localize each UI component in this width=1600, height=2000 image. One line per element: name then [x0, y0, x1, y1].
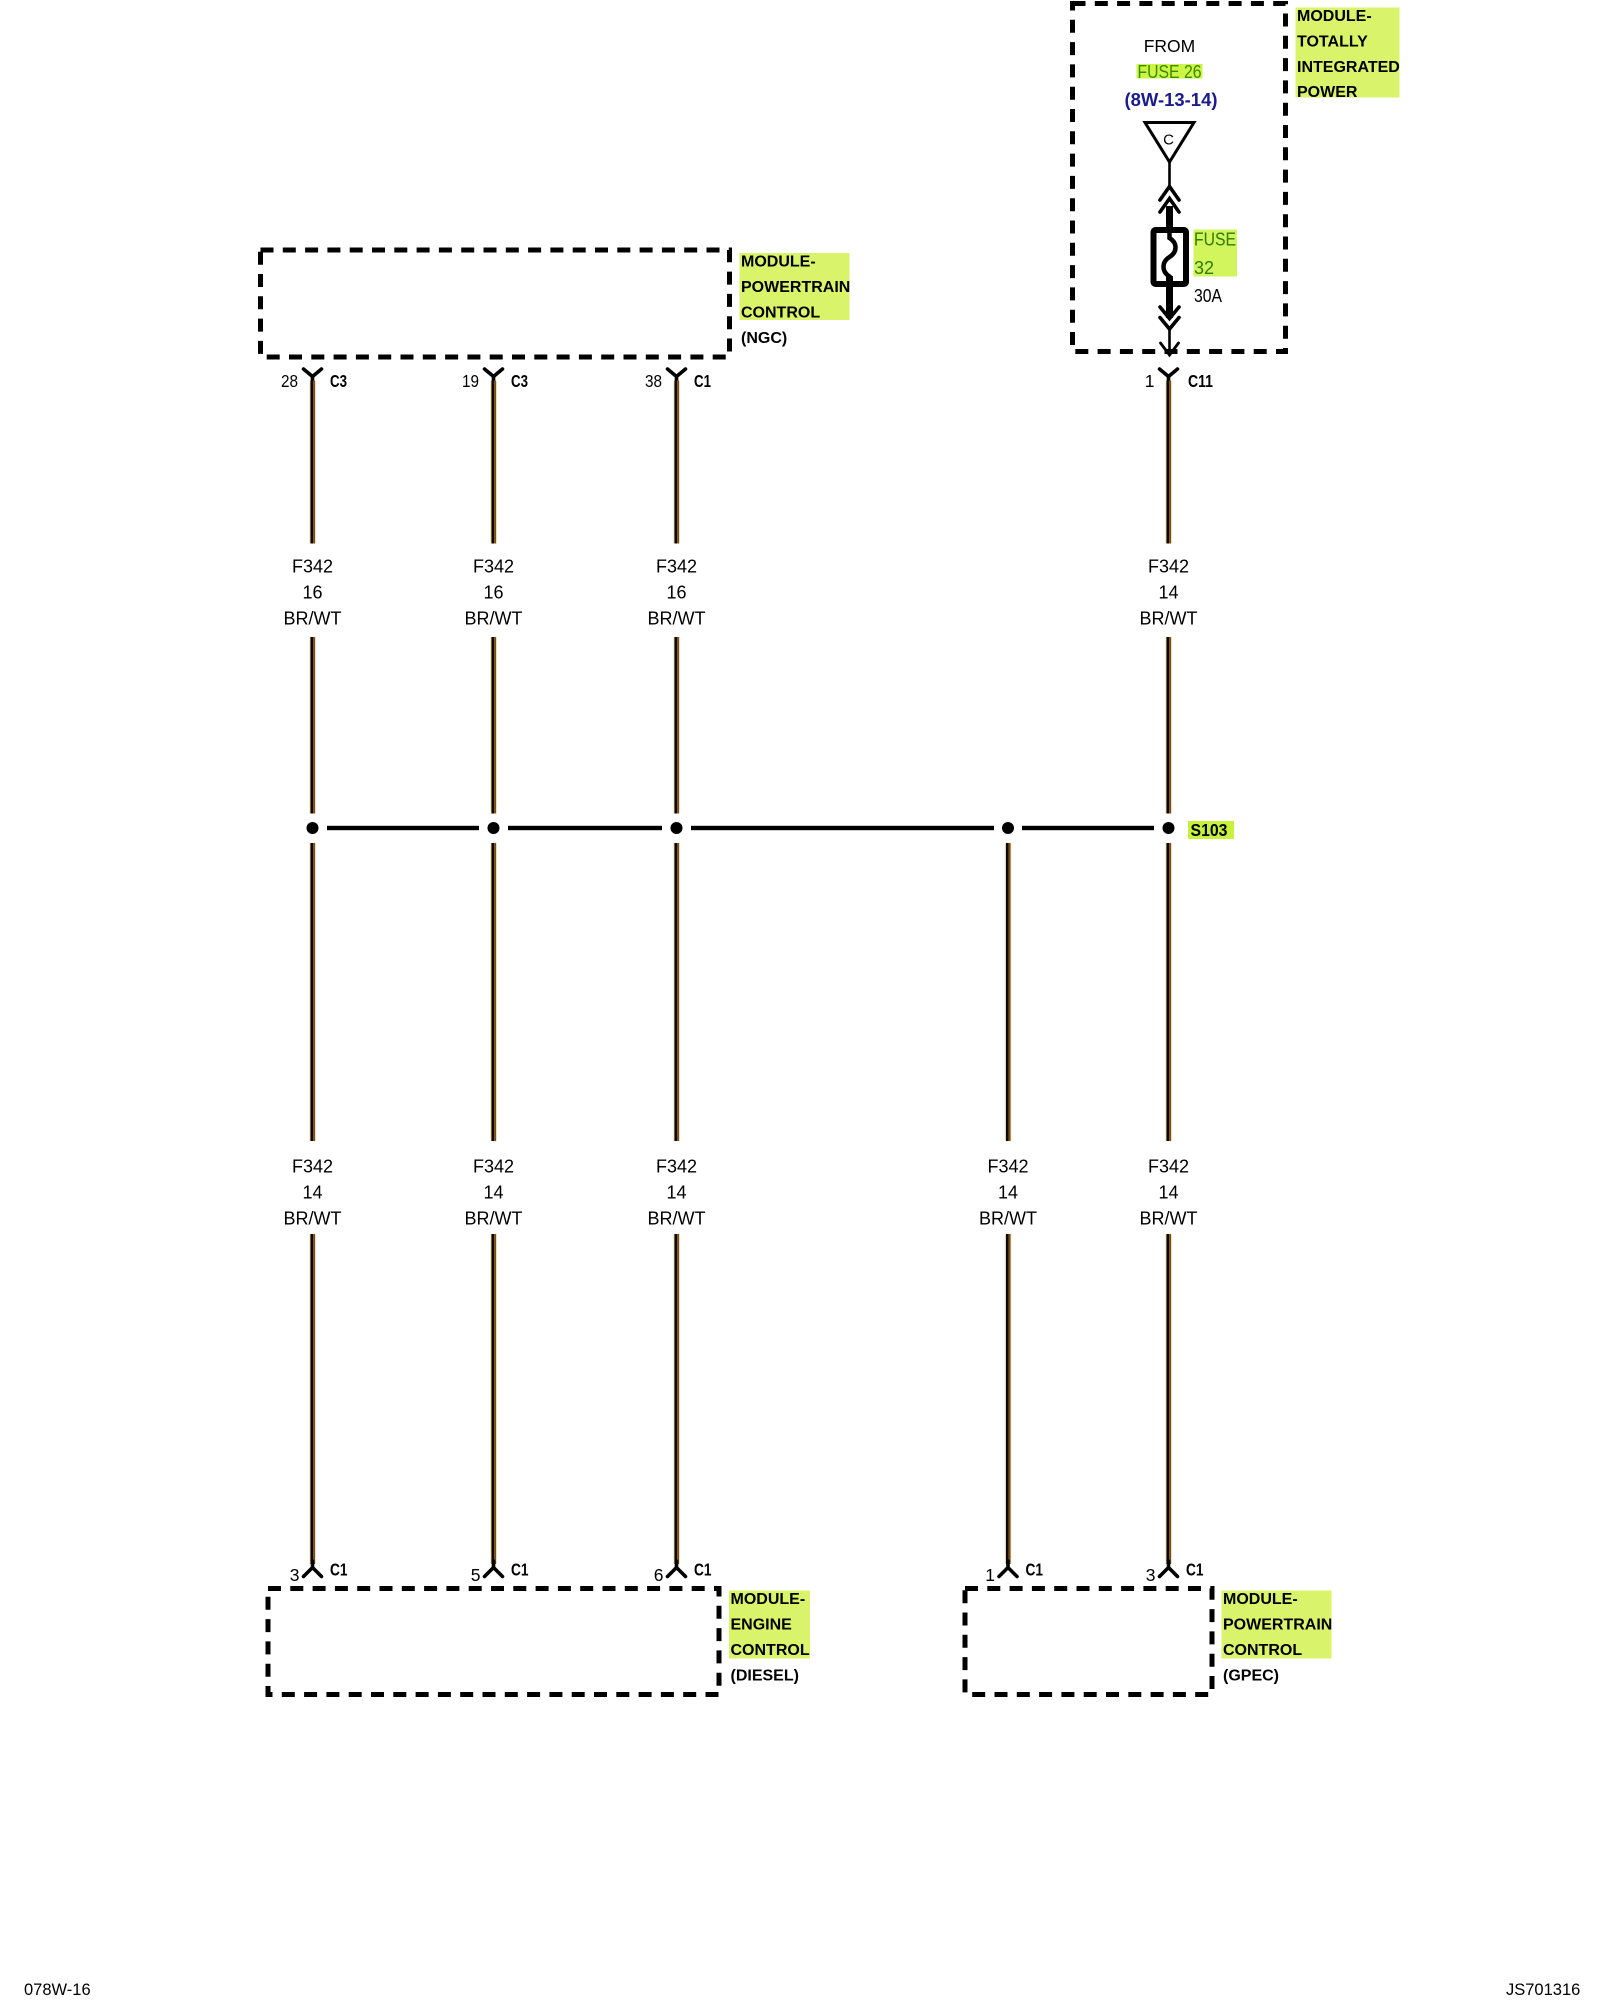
svg-text:C3: C3: [511, 371, 528, 391]
svg-text:5: 5: [471, 1565, 481, 1585]
wire col3 upper-b: [673, 637, 680, 814]
svg-text:19: 19: [462, 371, 479, 391]
svg-text:C1: C1: [694, 371, 711, 391]
svg-text:CONTROL: CONTROL: [731, 1642, 810, 1659]
wire label col1 lower: F342 14 BR/WT: [284, 1157, 342, 1229]
junction dot splice S103 col4: [1002, 822, 1014, 834]
wire col2 upper-a: [490, 381, 497, 544]
wire col3 upper-a: [673, 381, 680, 544]
svg-text:14: 14: [1158, 1183, 1178, 1203]
svg-text:(DIESEL): (DIESEL): [731, 1668, 799, 1685]
svg-text:30A: 30A: [1194, 286, 1222, 306]
wire col3 lower-b: [673, 1234, 680, 1564]
junction dot splice S103 col3: [671, 822, 683, 834]
wire label col3 upper: F342 16 BR/WT: [648, 557, 706, 629]
module: ENGINE CONTROL MODULE (DIESEL) dashed box: [268, 1589, 719, 1695]
svg-text:C11: C11: [1188, 371, 1213, 391]
svg-text:F342: F342: [473, 1157, 514, 1177]
wire label col3 lower: F342 14 BR/WT: [648, 1157, 706, 1229]
svg-text:F342: F342: [292, 1157, 333, 1177]
svg-text:F342: F342: [987, 1157, 1028, 1177]
svg-text:C1: C1: [1186, 1560, 1204, 1580]
wire col2 lower-b: [490, 1234, 497, 1564]
wire col2 upper-b: [490, 637, 497, 814]
svg-text:JS701316: JS701316: [1506, 1981, 1580, 1999]
label MODULE-TOTALLY INTEGRATED POWER: [1296, 8, 1400, 102]
svg-text:14: 14: [998, 1183, 1018, 1203]
thick feed wire into fuse 32: [1166, 206, 1173, 240]
junction dot splice S103 col1: [307, 822, 319, 834]
svg-text:F342: F342: [292, 557, 333, 577]
wire col4 lower-a: [1005, 843, 1012, 1141]
svg-text:C: C: [1163, 132, 1174, 149]
svg-text:14: 14: [302, 1183, 322, 1203]
wire col2 lower-a: [490, 843, 497, 1141]
label MODULE-ENGINE CONTROL (DIESEL): [729, 1591, 810, 1659]
svg-text:(NGC): (NGC): [741, 330, 787, 347]
wire col4 lower-b: [1005, 1234, 1012, 1564]
svg-text:FUSE: FUSE: [1194, 230, 1236, 250]
wire col5 lower-a: [1165, 843, 1172, 1141]
svg-text:S103: S103: [1191, 820, 1228, 840]
wire col1 upper-a: [309, 381, 316, 544]
svg-text:BR/WT: BR/WT: [648, 609, 706, 629]
svg-text:BR/WT: BR/WT: [465, 1209, 523, 1229]
pin 3 of connector C1 (ECM diesel): [290, 1560, 348, 1586]
svg-text:POWERTRAIN: POWERTRAIN: [741, 279, 850, 296]
splice S103 horizontal bus: [327, 826, 1154, 830]
wire label col1 upper: F342 16 BR/WT: [284, 557, 342, 629]
svg-text:14: 14: [1158, 583, 1178, 603]
svg-text:C1: C1: [330, 1560, 348, 1580]
svg-text:3: 3: [1146, 1565, 1156, 1585]
module: TOTALLY INTEGRATED POWER MODULE dashed box: [1073, 4, 1286, 352]
svg-text:F342: F342: [656, 1157, 697, 1177]
label MODULE-POWERTRAIN CONTROL (GPEC): [1222, 1591, 1333, 1659]
svg-text:TOTALLY: TOTALLY: [1297, 33, 1368, 50]
svg-text:CONTROL: CONTROL: [741, 304, 820, 321]
net label S103: [1188, 820, 1234, 840]
wire col1 upper-b: [309, 637, 316, 814]
double chevron (wire continuation, up): [1160, 187, 1179, 213]
wire col5 lower-b: [1165, 1234, 1172, 1564]
svg-text:C3: C3: [330, 371, 347, 391]
wire label col5 upper: F342 14 BR/WT: [1140, 557, 1198, 629]
svg-text:078W-16: 078W-16: [24, 1981, 91, 1999]
svg-text:ENGINE: ENGINE: [731, 1616, 793, 1633]
svg-text:14: 14: [483, 1183, 503, 1203]
svg-text:POWER: POWER: [1297, 84, 1358, 101]
svg-text:F342: F342: [656, 557, 697, 577]
svg-text:F342: F342: [1148, 557, 1189, 577]
wire label col4 lower: F342 14 BR/WT: [979, 1157, 1037, 1229]
label: FUSE 32: [1194, 230, 1238, 279]
sheet number 078W-16: [24, 1981, 91, 1999]
svg-text:16: 16: [666, 583, 686, 603]
wire label col5 lower: F342 14 BR/WT: [1140, 1157, 1198, 1229]
label: 30A rating: [1194, 286, 1222, 306]
net label: FROM FUSE 26 (8W-13-14): [1125, 36, 1218, 110]
svg-text:MODULE-: MODULE-: [1297, 8, 1372, 25]
wire col1 lower-b: [309, 1234, 316, 1564]
wire col5 upper-a: [1165, 381, 1172, 544]
label: (GPEC): [1223, 1668, 1279, 1685]
off-page connector C (triangle): [1145, 123, 1194, 163]
svg-text:C1: C1: [1026, 1560, 1044, 1580]
module: POWERTRAIN CONTROL MODULE (GPEC) dashed box: [965, 1589, 1212, 1695]
svg-text:(GPEC): (GPEC): [1223, 1668, 1279, 1685]
svg-text:F342: F342: [1148, 1157, 1189, 1177]
svg-text:1: 1: [985, 1565, 995, 1585]
svg-text:38: 38: [645, 371, 662, 391]
svg-text:CONTROL: CONTROL: [1223, 1642, 1302, 1659]
wire label col2 lower: F342 14 BR/WT: [465, 1157, 523, 1229]
label: (NGC): [741, 330, 787, 347]
pin 5 of connector C1 (ECM diesel): [471, 1560, 529, 1586]
svg-text:FROM: FROM: [1144, 36, 1196, 56]
svg-text:F342: F342: [473, 557, 514, 577]
svg-text:POWERTRAIN: POWERTRAIN: [1223, 1616, 1332, 1633]
svg-text:BR/WT: BR/WT: [648, 1209, 706, 1229]
drawing id JS701316: [1506, 1981, 1580, 1999]
pin 1 of connector C11 (TIPM output): [1145, 369, 1213, 391]
junction dot splice S103 col2: [488, 822, 500, 834]
pin 28 of connector C3 (NGC): [281, 369, 347, 391]
svg-text:(8W-13-14): (8W-13-14): [1125, 89, 1218, 110]
wire col3 lower-a: [673, 843, 680, 1141]
svg-text:BR/WT: BR/WT: [284, 609, 342, 629]
label: (DIESEL): [731, 1668, 799, 1685]
pin 6 of connector C1 (ECM diesel): [654, 1560, 712, 1586]
junction dot splice S103 col5: [1163, 822, 1175, 834]
svg-text:MODULE-: MODULE-: [741, 254, 816, 271]
double chevron (wire continuation, down): [1160, 307, 1179, 329]
svg-text:BR/WT: BR/WT: [1140, 1209, 1198, 1229]
svg-text:BR/WT: BR/WT: [979, 1209, 1037, 1229]
svg-text:C1: C1: [511, 1560, 529, 1580]
fuse 32 body (30A): [1154, 230, 1187, 284]
svg-text:3: 3: [290, 1565, 300, 1585]
wire col1 lower-a: [309, 843, 316, 1141]
svg-text:C1: C1: [694, 1560, 712, 1580]
pin 3 of connector C1 (PCM GPEC): [1146, 1560, 1204, 1586]
label MODULE-POWERTRAIN CONTROL (NGC): [740, 253, 851, 321]
pin 19 of connector C3 (NGC): [462, 369, 528, 391]
svg-text:1: 1: [1145, 371, 1155, 391]
module: POWERTRAIN CONTROL MODULE (NGC) dashed box: [261, 250, 730, 357]
pin 1 of connector C1 (PCM GPEC): [985, 1560, 1043, 1586]
svg-text:MODULE-: MODULE-: [1223, 1591, 1298, 1608]
wire with arrowhead to TIPM box edge: [1161, 329, 1179, 355]
wire label col2 upper: F342 16 BR/WT: [465, 557, 523, 629]
pin 38 of connector C1 (NGC): [645, 369, 711, 391]
svg-text:BR/WT: BR/WT: [284, 1209, 342, 1229]
thick wire out of fuse 32: [1166, 276, 1173, 318]
wire col5 upper-b: [1165, 637, 1172, 814]
svg-text:28: 28: [281, 371, 298, 391]
svg-text:MODULE-: MODULE-: [731, 1591, 806, 1608]
svg-text:32: 32: [1194, 258, 1214, 278]
svg-text:14: 14: [666, 1183, 686, 1203]
svg-text:6: 6: [654, 1565, 664, 1585]
svg-text:FUSE 26: FUSE 26: [1138, 62, 1202, 82]
svg-text:INTEGRATED: INTEGRATED: [1297, 59, 1400, 76]
svg-text:16: 16: [302, 583, 322, 603]
svg-text:BR/WT: BR/WT: [465, 609, 523, 629]
svg-text:16: 16: [483, 583, 503, 603]
wire: triangle apex down to chevrons: [1168, 160, 1171, 188]
svg-text:BR/WT: BR/WT: [1140, 609, 1198, 629]
